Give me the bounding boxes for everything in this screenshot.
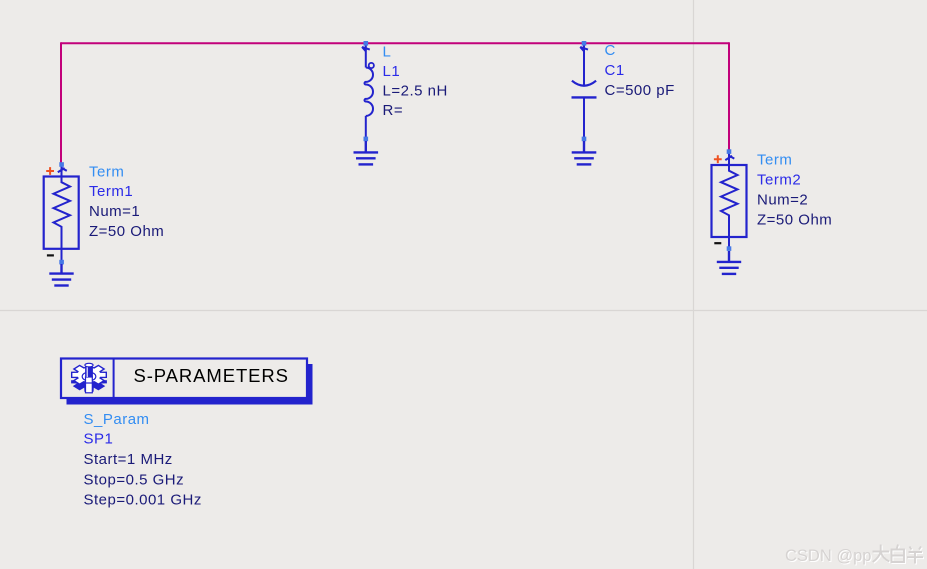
node C1 bottom pin (582, 137, 587, 142)
wire right drop (728, 42, 730, 150)
label Term2 (757, 152, 832, 229)
simulation block S-PARAMETERS shadow (67, 364, 313, 405)
svg-text:C1: C1 (605, 62, 625, 79)
label Term1 (89, 164, 164, 241)
ground GND3 (354, 141, 379, 164)
svg-text:C=500 pF: C=500 pF (605, 82, 675, 99)
svg-text:SP1: SP1 (84, 431, 114, 448)
ground GND4 (572, 141, 597, 164)
ground GND2 (717, 251, 741, 274)
label L1 (383, 44, 448, 120)
svg-text:S-PARAMETERS: S-PARAMETERS (134, 365, 289, 386)
svg-text:L: L (383, 44, 392, 61)
svg-text:Step=0.001 GHz: Step=0.001 GHz (84, 492, 202, 509)
wire left drop (60, 42, 62, 162)
svg-text:C: C (605, 42, 616, 59)
svg-text:L=2.5 nH: L=2.5 nH (383, 83, 448, 100)
simulation block S-PARAMETERS box (61, 359, 307, 399)
label S_Param (84, 411, 202, 509)
svg-text:Term: Term (89, 164, 124, 181)
icon gear (72, 363, 107, 392)
wire top bus (61, 42, 729, 44)
node Term1 top pin (59, 162, 64, 167)
pin Term2 plus (714, 155, 722, 163)
pin Term1 plus (46, 167, 54, 175)
svg-text:Z=50 Ohm: Z=50 Ohm (89, 223, 164, 240)
port Term2 (712, 153, 747, 251)
pin Term1 minus (47, 254, 54, 256)
svg-text:Num=1: Num=1 (89, 203, 140, 220)
watermark (785, 545, 923, 566)
node Term1 bottom pin (59, 260, 64, 265)
label C1 (605, 42, 675, 99)
node L1 top pin (364, 41, 369, 46)
inductor L1 (362, 46, 374, 138)
svg-text:Term: Term (757, 152, 792, 169)
node Term2 bottom pin (727, 246, 732, 251)
svg-text:L1: L1 (383, 63, 401, 80)
svg-text:CSDN @pp: CSDN @pp (785, 547, 871, 565)
svg-text:Term2: Term2 (757, 172, 801, 189)
node C1 top pin (582, 41, 587, 46)
pin Term2 minus (714, 242, 721, 244)
svg-text:Term1: Term1 (89, 183, 133, 200)
svg-text:Start=1 MHz: Start=1 MHz (84, 451, 173, 468)
svg-text:Z=50 Ohm: Z=50 Ohm (757, 212, 832, 229)
svg-text:R=: R= (383, 102, 404, 119)
port Term1 (44, 166, 79, 264)
capacitor C1 (572, 46, 597, 138)
svg-text:Num=2: Num=2 (757, 192, 808, 209)
svg-text:S_Param: S_Param (84, 411, 150, 428)
node L1 bottom pin (364, 137, 369, 142)
ground GND1 (49, 264, 73, 286)
node Term2 top pin (727, 149, 732, 154)
svg-text:Stop=0.5 GHz: Stop=0.5 GHz (84, 471, 185, 488)
